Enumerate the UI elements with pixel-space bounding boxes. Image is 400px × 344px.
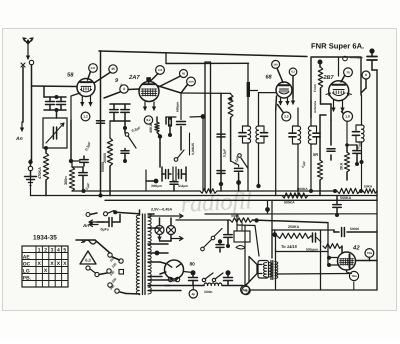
osc cap bottom (170, 181, 178, 183)
filter choke (204, 283, 222, 286)
svg-text:20000: 20000 (103, 153, 107, 163)
junction dots left (55, 95, 59, 99)
lamp bottom arrows (159, 235, 161, 241)
svg-text:500KA: 500KA (340, 196, 352, 200)
tube42 bottom wire (347, 270, 352, 274)
svg-text:2A7: 2A7 (128, 74, 140, 81)
power transformer secondary (148, 214, 151, 294)
power transformer core (142, 214, 144, 295)
tube V5 42 (338, 252, 356, 270)
speaker core (270, 261, 272, 280)
pin circle 6 (362, 71, 370, 79)
svg-text:0µFa: 0µFa (101, 227, 110, 231)
osc caps top (166, 116, 176, 118)
box C around 2B7 (311, 57, 361, 118)
pin circle 100 (156, 66, 165, 75)
cap at cathode (80, 159, 88, 161)
pin circle 2,3 mid (282, 112, 291, 121)
coupling cap out (312, 233, 314, 242)
pin circle 70 (344, 68, 353, 77)
svg-text:4: 4 (57, 248, 60, 254)
svg-text:65: 65 (182, 72, 186, 76)
resistor 500k bus (282, 193, 308, 198)
svg-text:6,3: 6,3 (291, 71, 295, 74)
svg-text:0,1µF: 0,1µF (223, 149, 227, 157)
svg-text:4: 4 (123, 87, 125, 91)
svg-text:100: 100 (158, 69, 163, 72)
dial lamp 2 (167, 226, 176, 235)
transformer bottom wire (139, 293, 141, 296)
svg-text:6,3: 6,3 (85, 258, 91, 263)
terminal circle bottom (86, 266, 90, 270)
svg-text:80: 80 (190, 262, 196, 268)
resistor 40k (155, 122, 159, 132)
IF2 wires (297, 108, 299, 126)
wire 340 to top (277, 68, 283, 82)
IF1 tank B (259, 126, 265, 143)
svg-text:AE: AE (23, 254, 31, 260)
svg-text:45: 45 (111, 67, 115, 71)
svg-text:/2,8µm: /2,8µm (178, 184, 188, 188)
tone switch cluster (201, 247, 205, 251)
svg-text:2,3: 2,3 (284, 115, 289, 119)
pin circle 65 (180, 70, 188, 78)
cap 01 right (353, 150, 361, 152)
tube80 wires (160, 262, 166, 264)
filter cap 2 (226, 270, 231, 275)
svg-text:PB.: PB. (23, 275, 32, 281)
svg-text:B00KA: B00KA (297, 187, 308, 191)
plate line to TBa2 (277, 273, 350, 276)
tube 80 (165, 260, 184, 279)
pin circle 63 speaker (241, 285, 250, 294)
svg-text:1,8: 1,8 (345, 115, 350, 119)
resistor 250k out (274, 230, 276, 235)
svg-text:FNR Super 6A.: FNR Super 6A. (311, 41, 364, 50)
pot cap (224, 234, 232, 236)
speaker field coil (263, 263, 266, 278)
pin circle 1,8 (343, 112, 353, 122)
filter cap 1 (191, 270, 196, 275)
svg-text:6: 6 (365, 73, 367, 77)
selector wires (95, 240, 110, 253)
2B7 feed from top (338, 57, 340, 76)
IF2 tank B (311, 126, 317, 144)
resistor 230 vertical (228, 94, 233, 118)
filter switch (205, 273, 213, 279)
wire V1 grid left (32, 85, 78, 88)
resistor 50k right (363, 189, 377, 193)
wire 65 to tube (159, 76, 181, 87)
pin circle 247 (89, 64, 98, 73)
svg-text:40KA: 40KA (149, 123, 153, 133)
svg-text:OC: OC (23, 261, 31, 267)
svg-text:2KA: 2KA (340, 162, 344, 170)
svg-text:0,00025: 0,00025 (191, 143, 195, 155)
svg-text:300n: 300n (64, 176, 68, 185)
svg-text:2,5V—0,45A: 2,5V—0,45A (151, 208, 172, 212)
svg-text:To 14/15: To 14/15 (281, 244, 298, 249)
pin circle 340 (272, 60, 280, 68)
volume pot box (234, 231, 250, 242)
heater arrow (148, 214, 183, 218)
output box bottom (250, 289, 378, 291)
svg-text:LG: LG (23, 268, 30, 274)
right bus vertical (376, 70, 378, 200)
svg-text:5: 5 (63, 248, 66, 254)
svg-text:5R: 5R (313, 152, 318, 157)
osc switch2 (174, 158, 178, 162)
cathode cap 0,1 (79, 172, 87, 174)
mains line to pot (205, 213, 377, 215)
svg-text:680µm: 680µm (176, 102, 180, 112)
svg-text:50KA: 50KA (364, 185, 373, 189)
caps under 2b7 bottom (333, 204, 341, 206)
tube V3 68 (276, 82, 292, 98)
ground (25, 176, 37, 178)
trimmer box (43, 118, 67, 148)
tube V1 58 (77, 79, 95, 97)
box A left vertical (100, 51, 102, 196)
antenna (23, 38, 33, 50)
wire 6 down (365, 79, 367, 88)
osc dot left (154, 179, 159, 184)
antenna coil lines (22, 67, 24, 122)
svg-text:3: 3 (51, 248, 54, 254)
output box left (271, 230, 273, 258)
svg-text:1934-35: 1934-35 (33, 235, 57, 242)
bus AVC y195 (31, 195, 378, 197)
svg-text:/000µm: /000µm (151, 184, 162, 188)
plate feed y93 (181, 92, 231, 94)
terminal circle TBa2 (349, 271, 358, 280)
osc switch (128, 136, 136, 148)
terminal switch an (86, 213, 90, 217)
resistor 470k (43, 153, 48, 180)
power switch (104, 212, 108, 216)
svg-text:6,3: 6,3 (243, 288, 248, 292)
dial lamp 1 (155, 226, 164, 235)
wire 1000 to tube plate (181, 85, 188, 94)
osc coil assembly (165, 170, 167, 179)
osc node dot (158, 134, 162, 138)
mains cap symbol (369, 48, 374, 53)
power transformer primary (136, 215, 139, 294)
volume feed line (176, 219, 230, 221)
svg-text:1: 1 (38, 248, 41, 254)
filter node circle 2 (242, 286, 250, 294)
bus3 stem dot (267, 201, 269, 214)
wire pin45 to grid (94, 73, 110, 84)
svg-text:470KA: 470KA (38, 167, 42, 179)
selector circles (108, 253, 112, 257)
cap 50000 out (333, 230, 335, 232)
svg-text:500KA: 500KA (284, 201, 295, 205)
ground to bus (30, 176, 32, 196)
grid wires left (128, 88, 140, 91)
wire 70 to top (341, 75, 345, 82)
ground node dot (28, 160, 32, 164)
svg-text:1,2: 1,2 (83, 115, 88, 119)
wire grid left2 (43, 86, 45, 97)
output box top (272, 229, 334, 231)
IF1 wires (247, 63, 249, 126)
svg-text:8,2: 8,2 (146, 118, 151, 122)
svg-text:TBa: TBa (367, 251, 373, 255)
svg-text:250KA: 250KA (288, 225, 300, 229)
wire tuning to box (56, 110, 58, 118)
speaker cone (249, 257, 262, 283)
pin circle 8,2 (144, 116, 152, 124)
shield partition double line (204, 62, 206, 191)
wire 63 down (292, 76, 294, 98)
bus bottom y200 (105, 199, 377, 201)
wire 100 to tube top (151, 74, 158, 81)
svg-text:/300n: /300n (204, 290, 212, 294)
wire cathode down (71, 93, 80, 120)
tube V4 2B7 (329, 81, 349, 101)
svg-text:47000µm: 47000µm (350, 56, 363, 60)
pin circle 63a (289, 68, 297, 76)
svg-text:2: 2 (44, 248, 47, 254)
terminal circle TBa1 (365, 249, 374, 258)
resistor 250k h (337, 188, 360, 193)
svg-text:Antenna: Antenna (313, 101, 317, 113)
output right bus (376, 230, 378, 290)
tuning cap pair (46, 101, 55, 103)
svg-text:70: 70 (346, 70, 350, 74)
svg-text:68: 68 (266, 75, 273, 81)
output transformer secondary (275, 262, 278, 279)
filament feed vertical (327, 223, 329, 265)
transformer top wires (139, 210, 141, 215)
ac wave symbol (84, 240, 96, 244)
svg-text:An: An (15, 136, 23, 142)
IF2 tank A (293, 126, 299, 144)
filter node circle 1 (189, 290, 197, 298)
2B7 diode arrows (326, 93, 331, 95)
cap on x100 (97, 120, 105, 122)
osc caps pair (110, 103, 130, 105)
cap small v2 (121, 150, 129, 152)
from ant vertical (318, 60, 323, 65)
speaker to out wires (275, 235, 277, 252)
pin circle 45 (109, 65, 117, 73)
svg-text:2B7: 2B7 (323, 75, 335, 81)
An arrow left (21, 122, 23, 131)
svg-text:42: 42 (352, 245, 360, 252)
power cap (108, 218, 110, 227)
feed junction y93 (211, 92, 220, 94)
right tank single (361, 95, 363, 125)
triangle 6,3 (80, 251, 96, 264)
IF1 tank A (243, 126, 249, 143)
svg-text:TBa: TBa (351, 274, 357, 278)
tube68 left wires (250, 90, 258, 92)
speaker bottom wire (246, 282, 250, 285)
pot to speaker line (237, 224, 255, 227)
tube42 stubs (329, 257, 339, 259)
wire V1 topcap to pin (88, 72, 91, 81)
resistor 500k out (323, 244, 342, 249)
wire x221 (220, 93, 222, 191)
filter bus (165, 285, 204, 287)
switch under IF1 (238, 154, 242, 158)
bus B- y191 (72, 190, 200, 192)
svg-text:340: 340 (273, 63, 278, 66)
svg-text:247: 247 (91, 66, 96, 70)
grid return vertical (320, 230, 322, 290)
transformer taps right (148, 227, 160, 229)
tube42 wires (356, 260, 378, 262)
svg-text:50000: 50000 (350, 227, 359, 231)
cathode resistor 300 (69, 167, 74, 191)
box A top line (99, 51, 307, 57)
wire x330 (330, 120, 332, 145)
svg-text:From: From (313, 84, 317, 92)
speaker driver (258, 261, 269, 279)
resistor 20k v2 (107, 138, 112, 166)
svg-text:An: An (82, 223, 89, 228)
pin circle 4 (120, 85, 128, 93)
inner box top (166, 62, 249, 64)
svg-text:1000: 1000 (188, 80, 194, 83)
resistor 2k (346, 121, 348, 145)
svg-text:4µ: 4µ (192, 292, 196, 296)
tube V2 2A7 (139, 82, 159, 102)
pin circle 1,2 (81, 112, 90, 121)
x203 dot wire (201, 114, 206, 119)
svg-text:58: 58 (67, 72, 74, 79)
svg-text:/0000: /0000 (231, 214, 239, 218)
pin circle 1000 (187, 77, 196, 86)
volume resistor (230, 218, 253, 222)
stub feed line (276, 251, 329, 253)
